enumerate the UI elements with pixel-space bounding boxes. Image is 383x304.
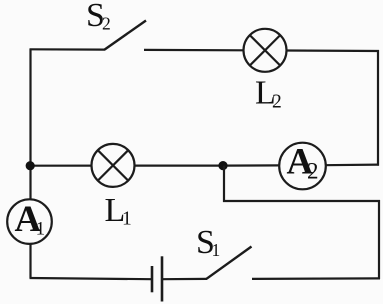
svg-text:1: 1 — [122, 209, 132, 230]
svg-text:2: 2 — [307, 158, 319, 183]
lamp L2 — [244, 29, 287, 72]
svg-text:2: 2 — [102, 14, 111, 34]
wire junction drop — [223, 166, 225, 202]
wire horizontal mid-right — [223, 200, 380, 202]
battery negative plate — [151, 266, 154, 292]
wire A2 right — [324, 164, 379, 167]
wire right vertical lower — [378, 200, 380, 279]
wire top to right corner — [286, 49, 379, 52]
svg-text:1: 1 — [36, 219, 46, 240]
lamp L1 — [92, 144, 135, 187]
wire A2 left — [223, 164, 280, 166]
switch S1 blade — [207, 247, 252, 279]
svg-text:1: 1 — [212, 240, 221, 260]
wire middle branch — [30, 165, 224, 167]
ammeter A2 — [279, 141, 326, 189]
svg-text:2: 2 — [272, 92, 282, 113]
node junction left — [26, 161, 35, 170]
switch S2 blade — [105, 21, 147, 50]
wire bottom right segment — [252, 277, 380, 280]
ammeter A1 — [7, 199, 52, 244]
wire right vertical upper — [377, 50, 379, 166]
node junction right — [218, 161, 227, 170]
wire bottom left segment — [30, 278, 153, 279]
wire top right of S2 — [144, 49, 244, 52]
wire left vertical — [29, 49, 31, 278]
wire top left segment — [30, 48, 106, 50]
battery positive plate — [161, 256, 164, 301]
wire bottom middle segment — [162, 278, 207, 281]
